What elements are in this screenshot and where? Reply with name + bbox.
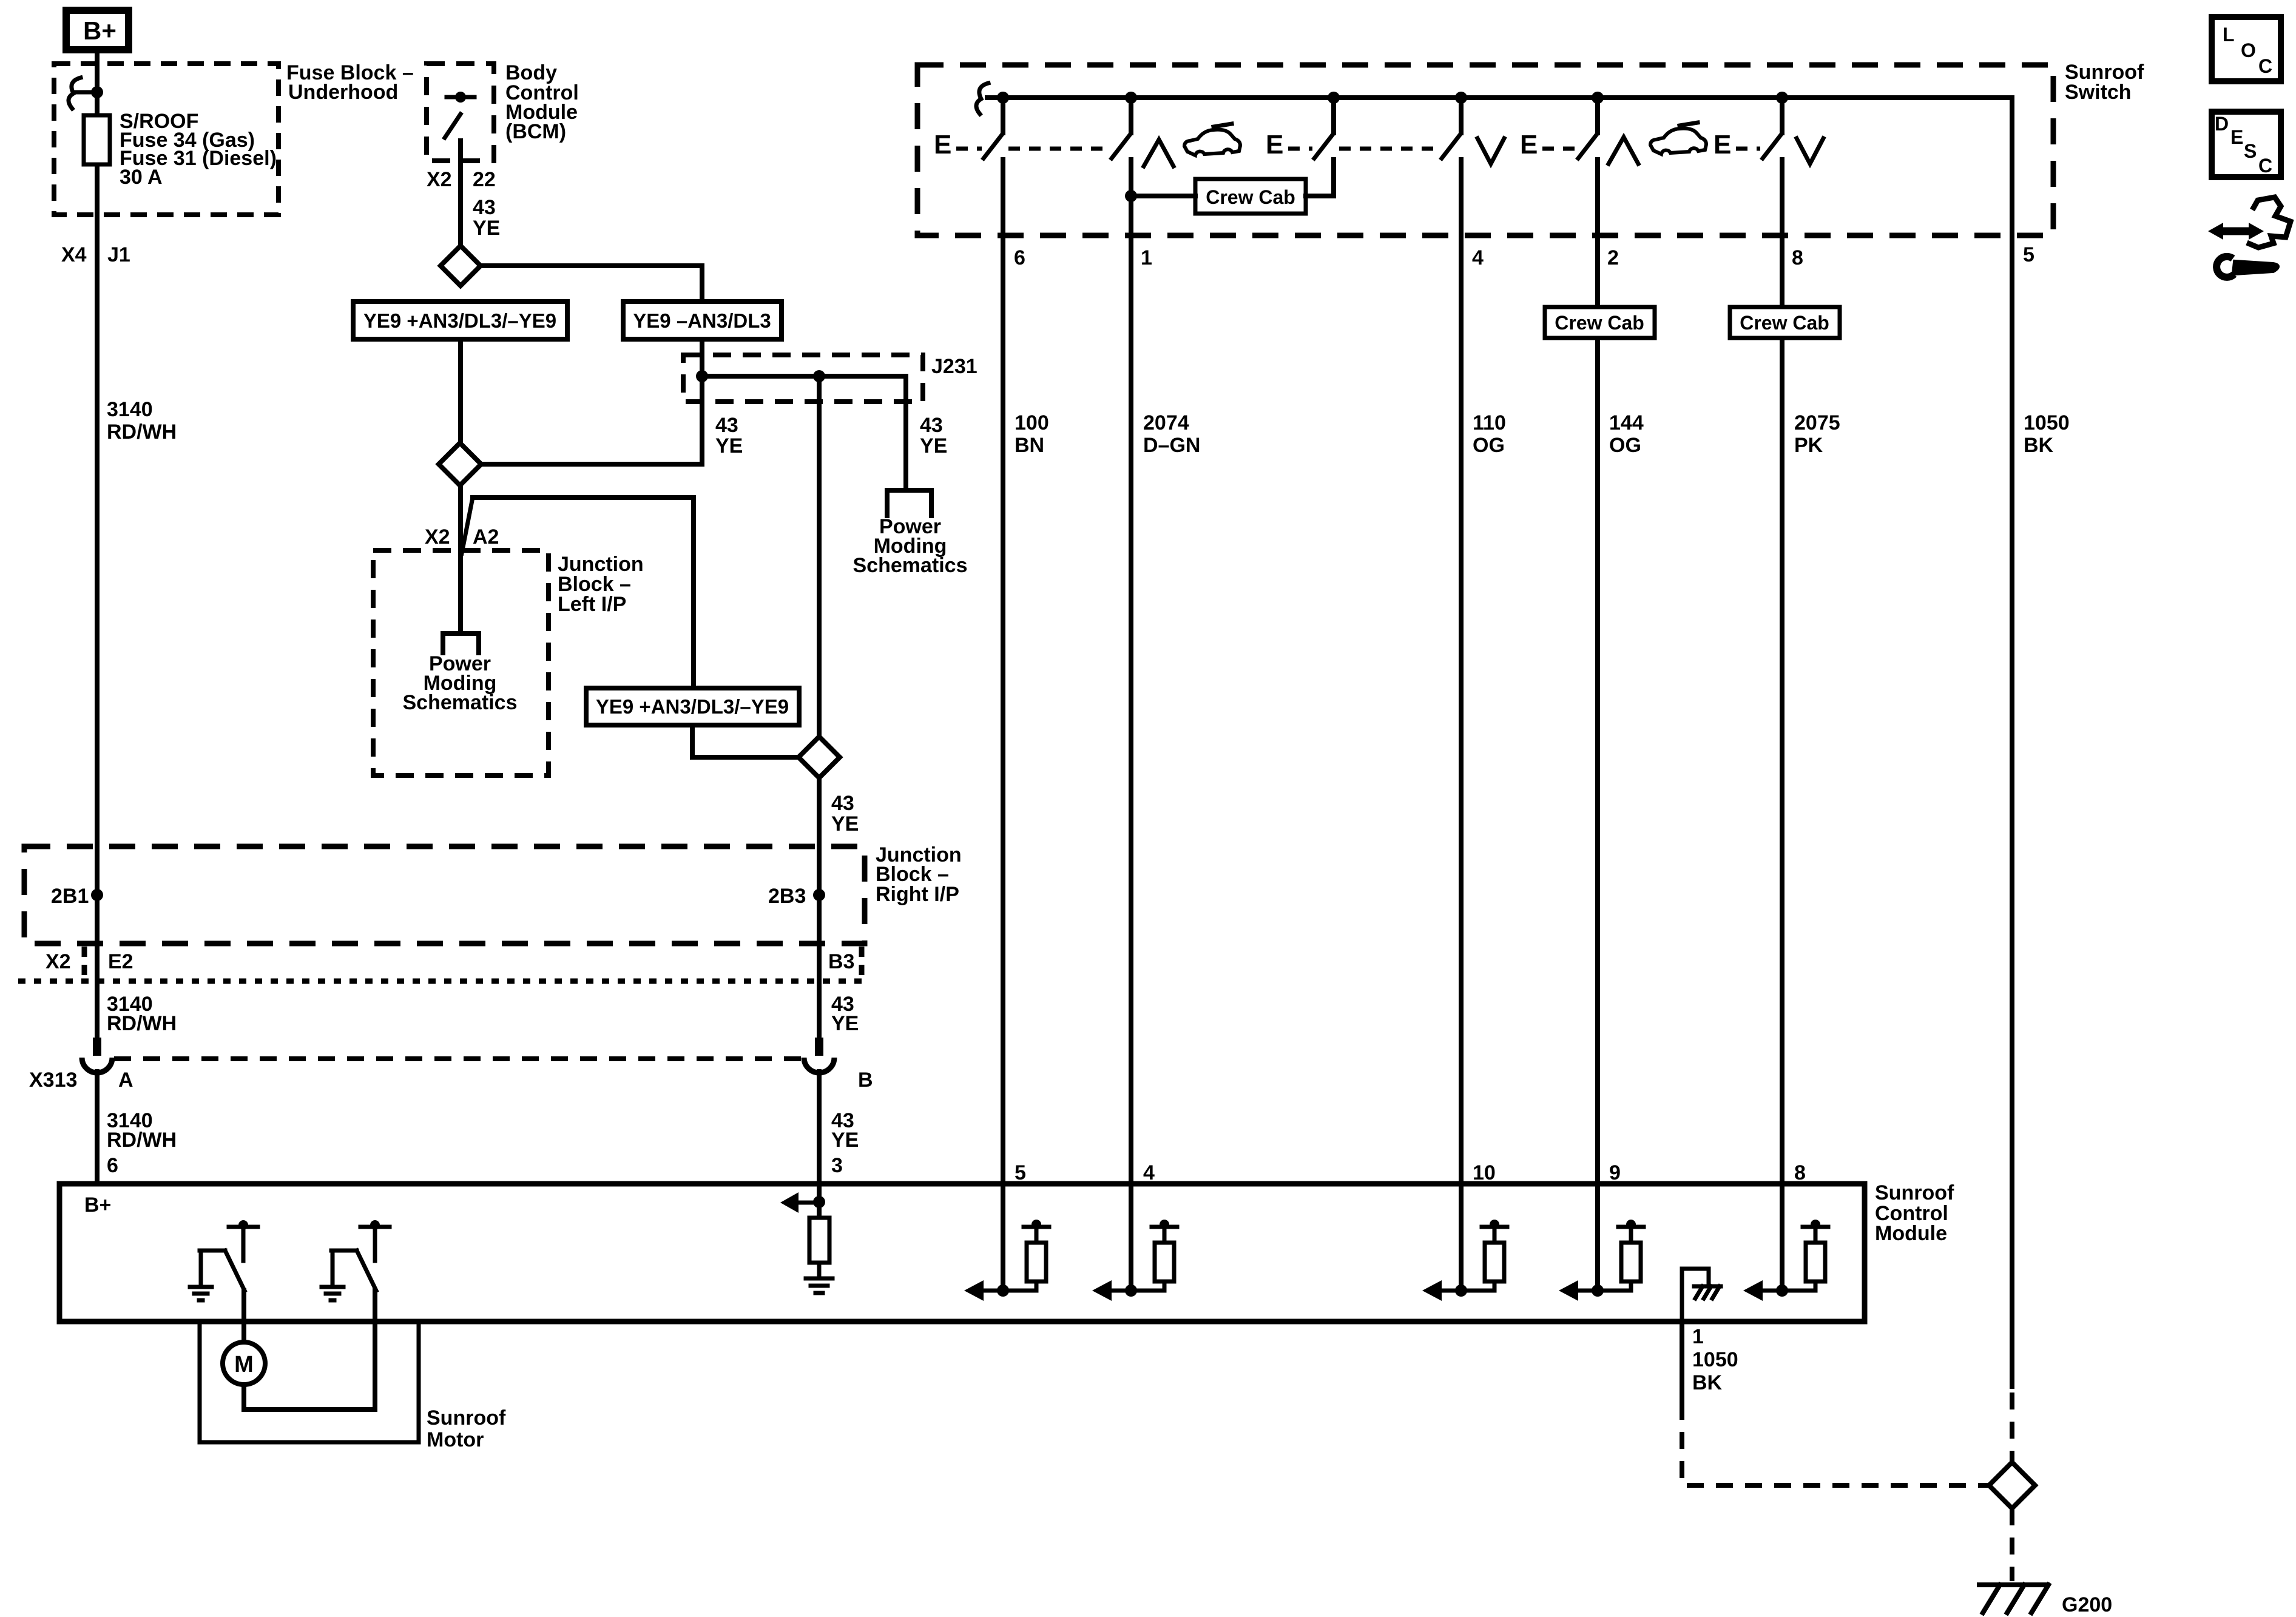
connector X313 terminal A female [82, 1058, 112, 1073]
wire 2075 PK pin8 to module [1782, 160, 1840, 1184]
junction block left label [558, 553, 644, 616]
wire crew cab left [1131, 194, 1195, 198]
svg-text:110: 110 [1473, 411, 1506, 434]
module input pin5 network [964, 1184, 1049, 1301]
splice diamond S1 [441, 246, 481, 286]
svg-text:43: 43 [473, 196, 496, 219]
svg-text:4: 4 [1472, 246, 1484, 269]
svg-text:1: 1 [1692, 1325, 1704, 1348]
connector X4 pin J1 [61, 243, 130, 266]
svg-text:X4: X4 [61, 243, 87, 266]
sunroof motor box [200, 1322, 419, 1442]
sunroof control module label [1875, 1181, 1954, 1245]
wire 43 YE from BCM [461, 161, 500, 247]
wire A2 down to junction block left [458, 485, 463, 633]
svg-text:PK: PK [1794, 434, 1823, 457]
svg-text:X2: X2 [425, 525, 450, 549]
BCM label [505, 61, 579, 143]
junction dot J231 mid [813, 370, 825, 382]
branch wire to lower harness label [473, 498, 694, 688]
module input pin9 network [1559, 1184, 1644, 1301]
svg-text:E2: E2 [108, 950, 133, 973]
svg-text:A2: A2 [473, 525, 499, 549]
harness label YE9 -AN3/DL3 [623, 302, 782, 339]
svg-text:X313: X313 [29, 1068, 77, 1092]
wire from lower label to splice S3 [692, 725, 799, 757]
node 2B1 [51, 885, 103, 908]
dashed ground wire to splice [1682, 1403, 1990, 1485]
svg-text:10: 10 [1473, 1161, 1496, 1184]
ground G200 symbol [1979, 1585, 2048, 1613]
wire 1050 BK pin5 [2012, 98, 2070, 1386]
svg-text:S: S [2244, 140, 2257, 162]
svg-text:RD/WH: RD/WH [107, 1129, 177, 1152]
sunroof switch dashed box [917, 65, 2053, 235]
svg-text:Underhood: Underhood [288, 81, 398, 104]
wire A from B+ through fuse block [95, 50, 100, 1039]
svg-text:YE: YE [473, 217, 500, 240]
wire from YE9 label into J231 [700, 339, 704, 376]
svg-text:144: 144 [1609, 411, 1644, 434]
module input pin8 network [1743, 1184, 1828, 1301]
svg-text:D–GN: D–GN [1143, 434, 1200, 457]
connector X2 boundary dotted line [18, 979, 864, 984]
svg-text:6: 6 [1014, 246, 1025, 269]
connector tick left [82, 947, 87, 979]
actuator dashed link E6 [1736, 147, 1760, 151]
junction at fuse feed [91, 86, 103, 98]
sunroof control module box [59, 1184, 1865, 1322]
splice diamond S2 [439, 443, 481, 485]
svg-text:YE: YE [831, 1129, 859, 1152]
svg-text:Schematics: Schematics [403, 691, 518, 714]
svg-text:Schematics: Schematics [853, 554, 968, 577]
svg-text:1: 1 [1141, 246, 1152, 269]
wire motor return loop [244, 1291, 375, 1409]
harness label YE9 +AN3/DL3/-YE9 [353, 302, 567, 339]
svg-text:2B1: 2B1 [51, 885, 89, 908]
svg-text:E: E [1266, 130, 1283, 160]
svg-text:M: M [234, 1352, 254, 1377]
actuator dashed link E3 [1288, 147, 1312, 151]
svg-text:B+: B+ [84, 1193, 111, 1217]
svg-text:4: 4 [1143, 1161, 1155, 1184]
svg-text:1050: 1050 [1692, 1348, 1738, 1371]
wire 144 OG pin2 to module [1598, 160, 1644, 1184]
svg-text:BK: BK [2024, 434, 2054, 457]
svg-text:D: D [2215, 113, 2229, 135]
wire 3140 RD/WH label upper [107, 398, 177, 444]
ground pin 1 wire 1050 BK [1682, 1322, 1738, 1401]
switch SW2 pin1 [1112, 92, 1137, 158]
svg-text:Right I/P: Right I/P [876, 883, 959, 906]
actuator dashed link SW3-SW4 [1339, 147, 1440, 151]
connector slash X2/A2 [462, 498, 473, 553]
svg-text:Left I/P: Left I/P [558, 593, 626, 616]
wire 43 YE label lower [831, 1109, 859, 1152]
switch bus hook [976, 83, 988, 114]
wire crew cab right [1306, 160, 1334, 196]
close symbol after SW6 [1797, 138, 1823, 164]
svg-text:3140: 3140 [107, 398, 153, 421]
wire B lower segment [817, 1072, 822, 1184]
connector X2 pin 22 [427, 168, 496, 191]
svg-text:OG: OG [1609, 434, 1641, 457]
svg-text:1050: 1050 [2024, 411, 2070, 434]
wire 43 YE from J231 mid down to S3 [819, 376, 947, 737]
connector tick right [859, 947, 865, 976]
wire 43 YE from S3 to junction block right [819, 778, 859, 1039]
svg-text:BN: BN [1015, 434, 1044, 457]
svg-text:B: B [858, 1068, 873, 1092]
svg-text:Crew Cab: Crew Cab [1206, 186, 1295, 208]
switch bus wire [987, 95, 2012, 100]
svg-text:C: C [2258, 155, 2272, 177]
body control module dashed box [427, 64, 494, 161]
junction block left I/P dashed box [373, 550, 549, 775]
svg-text:Motor: Motor [427, 1428, 484, 1451]
svg-text:BK: BK [1692, 1371, 1723, 1394]
fuse block underhood dashed box [54, 64, 279, 215]
svg-text:Crew Cab: Crew Cab [1555, 312, 1644, 334]
svg-text:43: 43 [831, 792, 854, 815]
svg-text:YE9 +AN3/DL3/–YE9: YE9 +AN3/DL3/–YE9 [363, 309, 556, 332]
close symbol after SW4 [1477, 138, 1504, 164]
power moding bracket right [887, 490, 931, 516]
switch SW3 crew cab [1314, 92, 1340, 158]
open symbol after SW2 [1144, 140, 1173, 166]
module input pin10 network [1422, 1184, 1507, 1301]
svg-text:8: 8 [1792, 246, 1803, 269]
svg-text:2: 2 [1607, 246, 1619, 269]
svg-text:G200: G200 [2062, 1593, 2112, 1616]
svg-text:E: E [2230, 126, 2243, 148]
svg-text:5: 5 [1015, 1161, 1026, 1184]
motor driver switch left [190, 1220, 258, 1300]
power moding schematics text right [853, 515, 968, 577]
BCM internal switch [445, 92, 474, 161]
open symbol after SW5 [1609, 137, 1638, 164]
svg-text:6: 6 [107, 1154, 118, 1177]
svg-text:X2: X2 [427, 168, 452, 191]
bus tap hook in fuse block [69, 78, 97, 109]
service icon wrench [2217, 257, 2277, 277]
wire 3140 RD/WH label mid [107, 993, 177, 1035]
actuator dashed link E1 [956, 147, 982, 151]
J231 junction dashed box [683, 355, 923, 402]
actuator dashed link E5 [1542, 147, 1576, 151]
svg-text:YE: YE [831, 1012, 859, 1035]
fuse text [120, 110, 277, 189]
svg-text:2B3: 2B3 [768, 885, 806, 908]
crew cab link box [1195, 179, 1306, 214]
sunroof switch label [2065, 61, 2144, 104]
switch SW6 pin8 [1763, 92, 1788, 158]
connector X2 pin A2 labels [425, 525, 499, 549]
junction block right label [876, 843, 962, 906]
svg-text:E: E [1520, 130, 1538, 160]
svg-text:43: 43 [715, 414, 738, 437]
svg-text:B3: B3 [828, 950, 854, 973]
svg-text:C: C [2258, 55, 2272, 77]
splice diamond S3 [799, 737, 840, 778]
svg-text:E: E [934, 130, 951, 160]
wire 43 YE from J231 left to S2 branch [481, 376, 743, 464]
module input pin3 network [780, 1184, 832, 1293]
dashed wire splice to G200 [2010, 1508, 2014, 1581]
junction dot crew cab [1125, 190, 1137, 202]
svg-text:3: 3 [831, 1154, 843, 1177]
wire 3140 RD/WH label lower [107, 1109, 177, 1152]
connector X313 terminal B male [815, 1038, 823, 1056]
module ground pin network [1682, 1269, 1721, 1320]
svg-text:9: 9 [1609, 1161, 1621, 1184]
connector X313 terminal B female [804, 1058, 834, 1073]
crew cab tag wire 2075 [1730, 307, 1840, 338]
wire inside J231 [702, 376, 906, 490]
X313 inline dashed line [114, 1056, 802, 1061]
svg-text:X2: X2 [46, 950, 71, 973]
svg-text:OG: OG [1473, 434, 1505, 457]
car icon 1 [1184, 124, 1240, 155]
svg-text:YE: YE [831, 812, 859, 836]
fuse S/ROOF 30A [84, 115, 110, 164]
splice diamond S4 [1989, 1462, 2035, 1508]
svg-text:5: 5 [2023, 243, 2034, 266]
switch SW1 pin6 [984, 92, 1009, 158]
svg-text:Switch: Switch [2065, 81, 2132, 104]
svg-text:Sunroof: Sunroof [427, 1406, 506, 1430]
actuator dashed link SW1-SW2 [1008, 147, 1110, 151]
LOC reference box [2212, 17, 2281, 81]
svg-text:2074: 2074 [1143, 411, 1189, 434]
module input pin4 network [1092, 1184, 1177, 1301]
motor driver switch right [322, 1220, 390, 1300]
svg-text:O: O [2241, 39, 2256, 61]
DESC reference box [2212, 112, 2281, 177]
svg-text:Sunroof: Sunroof [1875, 1181, 1954, 1204]
svg-text:J231: J231 [931, 355, 977, 378]
wire 100 BN pin6 to module [1003, 160, 1049, 1184]
dashed wire 1050 BK above splice [2010, 1393, 2014, 1462]
svg-text:YE: YE [715, 434, 743, 457]
svg-text:Module: Module [1875, 1222, 1947, 1245]
svg-text:(BCM): (BCM) [505, 120, 566, 143]
svg-text:L: L [2223, 24, 2235, 46]
junction block right I/P dashed box [24, 846, 865, 944]
sunroof motor label [427, 1406, 506, 1451]
wire 110 OG pin4 to module [1461, 160, 1506, 1184]
svg-text:Crew Cab: Crew Cab [1740, 312, 1829, 334]
wire module to motor [241, 1291, 246, 1343]
car icon 2 [1650, 123, 1706, 154]
svg-text:YE: YE [920, 434, 947, 457]
wire between label and splice S2 [458, 339, 463, 444]
wire 43 YE label mid [831, 993, 859, 1035]
wire from splice to right harness label [481, 266, 702, 302]
power moding bracket left [443, 633, 479, 653]
svg-text:43: 43 [920, 414, 943, 437]
svg-text:RD/WH: RD/WH [107, 420, 177, 444]
B+ battery feed box [66, 10, 129, 50]
wire A lower segment [95, 1072, 100, 1184]
service icon panel outline [2247, 197, 2291, 248]
node 2B3 [768, 885, 825, 908]
svg-text:8: 8 [1794, 1161, 1806, 1184]
svg-text:A: A [118, 1068, 133, 1092]
svg-text:30 A: 30 A [120, 166, 163, 189]
svg-text:B+: B+ [83, 16, 116, 45]
svg-text:22: 22 [473, 168, 496, 191]
crew cab tag wire 144 [1545, 307, 1655, 338]
harness label YE9 +AN3/DL3/-YE9 lower [586, 688, 799, 725]
junction dot J231 left [696, 370, 708, 382]
service icon double arrow [2208, 223, 2264, 240]
svg-text:100: 100 [1015, 411, 1049, 434]
svg-text:E: E [1714, 130, 1731, 160]
switch SW5 pin2 [1578, 92, 1604, 158]
wire 2074 D-GN pin1 to module [1131, 160, 1200, 1184]
fuse block label [286, 61, 414, 104]
svg-text:2075: 2075 [1794, 411, 1840, 434]
svg-text:RD/WH: RD/WH [107, 1012, 177, 1035]
svg-text:J1: J1 [107, 243, 130, 266]
switch SW4 pin4 [1442, 92, 1467, 158]
svg-text:YE9 –AN3/DL3: YE9 –AN3/DL3 [633, 309, 771, 332]
power moding schematics text left [403, 652, 518, 714]
connector X313 terminal A male [93, 1038, 101, 1056]
sunroof motor M [223, 1342, 265, 1385]
svg-text:YE9 +AN3/DL3/–YE9: YE9 +AN3/DL3/–YE9 [596, 695, 789, 718]
